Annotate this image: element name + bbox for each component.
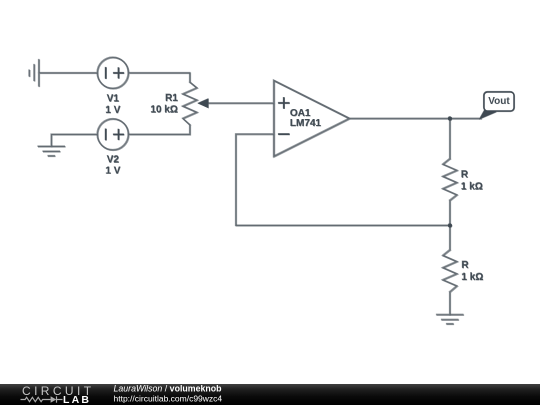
svg-text:LauraWilson / volumeknob: LauraWilson / volumeknob — [114, 384, 223, 394]
svg-text:http://circuitlab.com/c99wzc4: http://circuitlab.com/c99wzc4 — [114, 394, 223, 404]
svg-text:LAB: LAB — [63, 394, 91, 405]
